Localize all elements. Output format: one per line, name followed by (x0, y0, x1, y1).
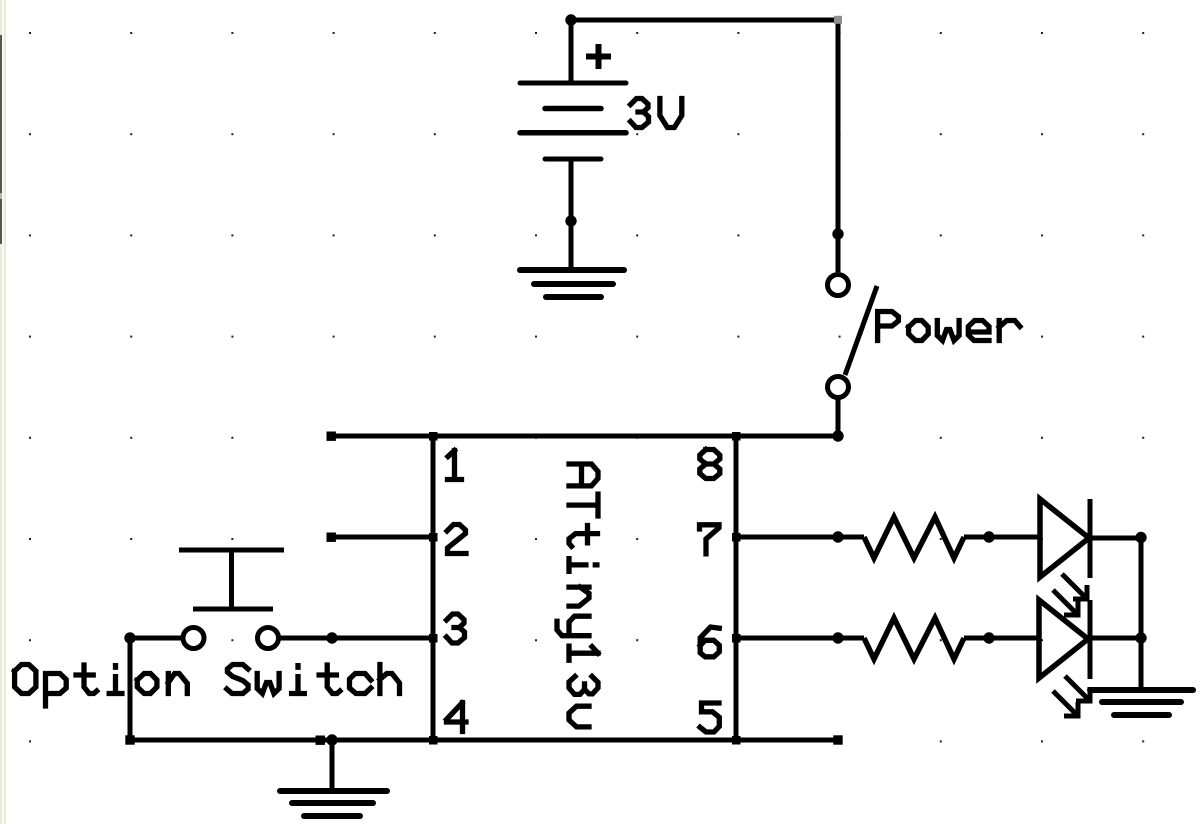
ground LEDs (1090, 690, 1193, 715)
wire battery positive lead (569, 20, 574, 83)
pin number 2 (447, 525, 466, 554)
IC U1 handle top-right (732, 432, 741, 441)
IC U1 handle pin7 (732, 533, 741, 542)
LED D2 triangle (1039, 600, 1088, 678)
node bottom ground junction (326, 734, 337, 745)
LED D1 arrow 1 (1062, 574, 1087, 599)
LED D2 cathode bar (1088, 600, 1093, 679)
wire end square pin2 (327, 533, 336, 542)
wire end square pin1 (327, 432, 336, 441)
wire LED D1 down (1139, 538, 1144, 638)
wire battery top to power switch (571, 18, 838, 23)
node LED D1 corner (1135, 532, 1146, 543)
wire pin2 stub (331, 535, 433, 540)
IC U1 handle top-left (429, 432, 438, 441)
pin number 8 (700, 450, 720, 479)
wire power switch upper lead (836, 20, 841, 272)
node resistor R2 right (983, 632, 994, 643)
LED D2 arrow 2 (1053, 691, 1078, 716)
node battery negative mid (565, 215, 576, 226)
node power switch to pin8 (832, 430, 843, 441)
wire end handle gray (834, 16, 842, 24)
pushbutton contact right (258, 628, 279, 649)
wire pin to resistor R1 (736, 535, 864, 540)
IC U1 handle bottom-left (429, 736, 438, 745)
battery value 3V (631, 99, 682, 128)
wire LED D1 to corner (1090, 536, 1141, 541)
IC U1 handle pin6 (732, 634, 741, 643)
node resistor R1 left (832, 531, 843, 542)
wire option switch left (130, 636, 181, 641)
resistor R2 zigzag (864, 618, 964, 659)
wire resistor R1 to LED (964, 535, 1040, 540)
wire option switch down (128, 638, 133, 740)
pushbutton contact left (183, 628, 204, 649)
battery B1 plate 4 (short -) (545, 157, 601, 162)
node LED D2 corner (1135, 632, 1146, 643)
node power switch wire mid (832, 228, 843, 239)
node battery positive junction (565, 14, 576, 25)
wire ground stem bottom (330, 740, 335, 790)
IC U1 name ATtiny13v (557, 464, 598, 727)
pin number 1 (448, 451, 462, 480)
pushbutton plunger top (179, 548, 284, 553)
label Option Switch (15, 665, 400, 707)
LED D2 arrow 1 (1065, 676, 1090, 701)
wire end square bottom-mid (316, 736, 325, 745)
IC U1 handle bottom-right (732, 736, 741, 745)
wire LED D2 down (1139, 638, 1144, 690)
label Power (878, 312, 1020, 341)
node option switch left (124, 632, 135, 643)
IC U1 handle pin2 (429, 533, 438, 542)
ground battery (520, 270, 624, 297)
pin number 6 (700, 627, 719, 657)
wire end square bottom-left (125, 735, 134, 744)
pushbutton plunger base (193, 607, 273, 612)
IC U1 handle pin3 (429, 634, 438, 643)
pin number 3 (447, 614, 465, 643)
LED D1 cathode bar (1088, 499, 1093, 578)
wire LED D2 to corner (1090, 636, 1141, 641)
resistor R1 zigzag (864, 517, 964, 558)
ground bottom (280, 791, 387, 816)
wire bottom ground rail (130, 738, 838, 743)
battery B1 plate 2 (short -) (545, 106, 601, 112)
node resistor R1 right (983, 531, 994, 542)
pin number 4 (447, 703, 467, 732)
LED D1 triangle (1040, 499, 1089, 577)
LED D1 arrow 2 (1053, 590, 1078, 615)
battery B1 plate 3 (long +) (520, 130, 626, 136)
wire pin to resistor R2 (736, 636, 864, 641)
wire end square bottom-right (833, 735, 842, 744)
switch S1 lever (845, 286, 877, 375)
node option switch right (326, 632, 337, 643)
switch S1 contact bottom (828, 377, 849, 398)
IC U1 ATtiny13v box (433, 436, 736, 740)
pushbutton plunger stem (229, 550, 234, 609)
wire resistor R2 to LED (964, 636, 1040, 641)
wire power switch lower lead (836, 399, 841, 436)
switch S1 contact top (828, 275, 849, 296)
wire battery negative lead (569, 159, 574, 268)
wire option switch to pin3 (281, 636, 434, 641)
pin number 7 (700, 525, 720, 554)
wire pin1/pin8 top rail (331, 434, 838, 439)
pin number 5 (700, 703, 719, 732)
battery B1 plus sign (586, 44, 611, 69)
node resistor R2 left (832, 632, 843, 643)
battery B1 plate 1 (long +) (520, 81, 626, 86)
